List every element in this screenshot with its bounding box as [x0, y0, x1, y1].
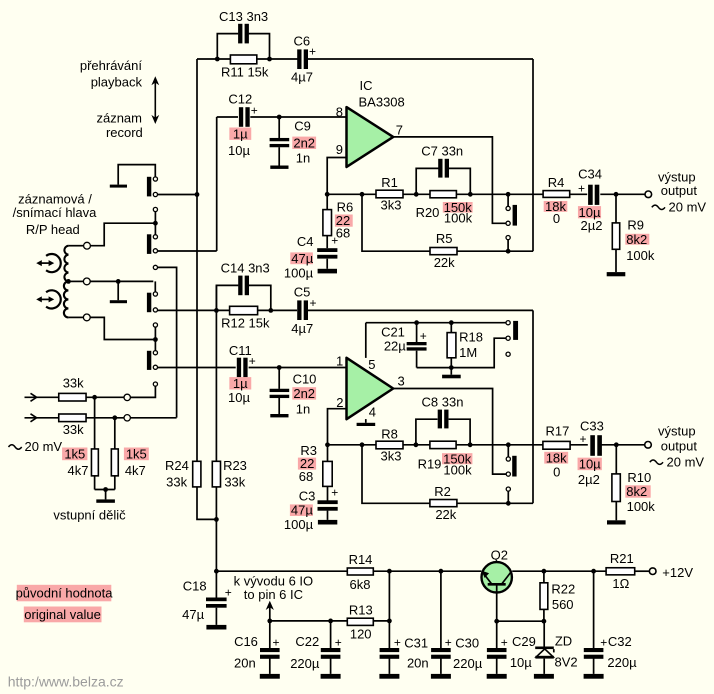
- svg-text:C11: C11: [229, 343, 252, 358]
- svg-text:2n2: 2n2: [293, 386, 315, 401]
- junction C22 top: [328, 619, 333, 624]
- svg-text:R18: R18: [459, 329, 483, 344]
- svg-text:+: +: [578, 181, 585, 195]
- svg-text:0: 0: [553, 465, 560, 480]
- junction C10 top: [277, 365, 282, 370]
- svg-text:Q2: Q2: [491, 548, 508, 563]
- svg-text:4k7: 4k7: [125, 463, 146, 478]
- svg-text:20 mV: 20 mV: [667, 455, 705, 470]
- svg-text:4µ7: 4µ7: [291, 321, 313, 336]
- svg-text:10µ: 10µ: [579, 457, 601, 472]
- switch E2 bar: [512, 456, 516, 477]
- pin 4 label: [369, 404, 376, 419]
- label C31 value: [404, 636, 428, 671]
- contact circle record position ch1: [506, 236, 510, 240]
- resistor R9 8k2/100k: [612, 223, 619, 249]
- pin 2 label: [336, 395, 343, 410]
- ground under C18: [206, 625, 226, 630]
- label C12 value: [228, 92, 252, 159]
- svg-text:C5: C5: [294, 284, 311, 299]
- wire main node line channel 2 (y=444.8): [328, 444, 645, 446]
- label R19 value: [418, 451, 473, 477]
- label IC type: [359, 78, 405, 109]
- svg-text:výstup: výstup: [658, 424, 696, 439]
- junction R18 top: [449, 320, 454, 325]
- op-amp U2 (IC BA3308 section 2): [347, 358, 394, 419]
- resistor 33k input row1: [59, 393, 86, 401]
- svg-text:47µ: 47µ: [182, 607, 204, 622]
- wire R12 line (y=310.4) switch C to EQ rail 2: [158, 309, 534, 311]
- svg-text:C9: C9: [294, 118, 311, 133]
- wire C31 stem lower: [388, 659, 390, 674]
- svg-text:+: +: [579, 432, 586, 446]
- svg-text:playback: playback: [91, 75, 143, 90]
- svg-text:původní hodnota: původní hodnota: [16, 585, 114, 600]
- svg-text:C22: C22: [295, 634, 319, 649]
- head terminal circle upper: [84, 242, 91, 249]
- svg-text:10µ: 10µ: [228, 390, 250, 405]
- label C18 value: [182, 579, 207, 622]
- svg-text:output: output: [661, 438, 698, 453]
- junction divider ground: [103, 487, 108, 492]
- svg-text:output: output: [661, 183, 698, 198]
- ground under C31: [379, 674, 399, 679]
- junction R2 right / record contact ch2: [506, 501, 511, 506]
- ground under R10: [607, 520, 626, 524]
- label R6 value: [335, 200, 353, 241]
- svg-text:8k2: 8k2: [626, 484, 647, 499]
- label R23 value: [223, 458, 247, 489]
- svg-text:R19: R19: [418, 457, 442, 472]
- svg-text:R20: R20: [416, 205, 440, 220]
- label ZD value: [555, 633, 578, 669]
- svg-text:C4: C4: [297, 234, 314, 249]
- junction C14 loop right: [268, 308, 273, 313]
- contact circle bias switch lower (open): [506, 352, 510, 356]
- wire ground stub above switch A: [118, 165, 155, 185]
- capacitor C14 3n3: [238, 276, 249, 296]
- wire R10 branch to ground: [615, 445, 617, 521]
- label playback/record selector: [80, 58, 143, 140]
- wire bias switch mid contact to C21/R18 bottom line: [417, 338, 506, 367]
- label divider 1k5/4k7 right: [124, 446, 149, 478]
- svg-text:1: 1: [336, 354, 343, 369]
- junction C7 loop right: [468, 192, 473, 197]
- junction Q2 base node: [494, 619, 499, 624]
- wire R2 feedback row: [362, 445, 533, 504]
- capacitor C33 10u/2u2: [579, 432, 601, 456]
- svg-text:68: 68: [299, 469, 313, 484]
- svg-text:0: 0: [553, 211, 560, 226]
- resistor R24 33k: [193, 461, 201, 487]
- svg-text:100k: 100k: [443, 463, 472, 478]
- svg-text:C7 33n: C7 33n: [421, 143, 463, 158]
- label R22 value: [551, 582, 575, 612]
- svg-text:C21: C21: [381, 324, 405, 339]
- ground under C9: [270, 166, 288, 169]
- label R20 value: [416, 200, 473, 226]
- resistor divider 1k5/4k7 right: [111, 449, 118, 476]
- label C6 value: [291, 34, 313, 85]
- capacitor C31 20n: [380, 636, 401, 659]
- svg-text:100µ: 100µ: [284, 265, 314, 280]
- resistor R2 22k: [430, 500, 457, 507]
- svg-text:8V2: 8V2: [555, 654, 578, 669]
- label R12 value: [221, 316, 270, 331]
- label original value note: [16, 585, 114, 623]
- svg-text:1k5: 1k5: [126, 446, 147, 461]
- junction C16 top: [267, 619, 272, 624]
- switch E1 contacts: [506, 206, 510, 225]
- capacitor C5 4u7: [297, 296, 316, 320]
- open circle input row2: [124, 415, 130, 421]
- resistor R13 120: [347, 618, 373, 625]
- svg-text:1M: 1M: [459, 345, 477, 360]
- capacitor C11 1u/10u: [237, 354, 256, 377]
- capacitor C18 47u electrolytic: [206, 586, 232, 608]
- svg-text:68: 68: [336, 226, 350, 241]
- svg-text:20 mV: 20 mV: [669, 200, 707, 215]
- svg-text:2n2: 2n2: [293, 135, 315, 150]
- open circle input row1: [124, 394, 130, 400]
- junction head centre tap at x=118: [116, 279, 121, 300]
- ground at switch A: [110, 185, 127, 188]
- wire stub to switch E1 upper contact: [507, 194, 509, 206]
- svg-text:47µ: 47µ: [291, 503, 313, 518]
- switch bar B (record): [147, 234, 151, 254]
- svg-text:100k: 100k: [444, 211, 473, 226]
- svg-text:C29: C29: [512, 634, 536, 649]
- svg-text:+: +: [420, 329, 427, 343]
- op-amp U1 (IC BA3308 section 1): [347, 107, 394, 167]
- wire R6-C4 branch: [326, 194, 328, 268]
- capacitor C6 4u7: [297, 44, 316, 69]
- svg-text:1µ: 1µ: [233, 126, 248, 141]
- output terminal circle ch1: [645, 191, 652, 198]
- svg-text:20 mV: 20 mV: [25, 439, 63, 454]
- svg-text:C13 3n3: C13 3n3: [219, 9, 268, 24]
- switch E2 contacts: [506, 457, 510, 476]
- label C11 value: [228, 343, 252, 405]
- junction C9 top: [277, 115, 282, 120]
- label C9 value: [292, 118, 316, 165]
- capacitor C29 10u: [487, 636, 508, 659]
- head coil lower winding: [64, 281, 84, 317]
- wire C30 stem: [440, 571, 442, 674]
- svg-text:560: 560: [552, 597, 574, 612]
- svg-text:120: 120: [350, 627, 372, 642]
- ground under C10: [270, 414, 288, 417]
- wire R13/C-row line y=620.9: [270, 620, 390, 622]
- ground at op-amp2 pin4: [357, 423, 376, 426]
- label input rows 33k: [63, 375, 84, 437]
- svg-text:to pin 6 IC: to pin 6 IC: [244, 587, 303, 602]
- wire op-amp1 output to playback switch: [393, 137, 506, 223]
- wire head centre tap to switch C and ground: [70, 281, 155, 292]
- capacitor C3 47u/100u electrolytic: [318, 485, 339, 510]
- wire C16 stem: [269, 621, 271, 674]
- switch contacts column x=155.4: [153, 177, 157, 386]
- svg-text:220µ: 220µ: [453, 656, 483, 671]
- wire switch pole stub (circle y=209.5 to circle y=236.8): [154, 212, 156, 235]
- label output ch2: [650, 424, 705, 470]
- junction R5 right / record contact: [506, 249, 511, 254]
- wire switch D lower contact to C11 (channel 2 input line): [158, 367, 236, 369]
- label R2 value: [434, 484, 457, 522]
- junction at switch pole y=223: [153, 221, 158, 226]
- svg-text:220µ: 220µ: [607, 655, 637, 670]
- label R9 value: [625, 218, 655, 263]
- wire input row 1 (33k upper): [25, 396, 125, 398]
- resistor R3 22/68: [323, 461, 332, 486]
- svg-text:C3: C3: [299, 488, 316, 503]
- svg-text:+: +: [394, 636, 401, 650]
- svg-text:C6: C6: [293, 34, 310, 49]
- junction main line at switch E2: [506, 442, 511, 447]
- head gap symbol upper (circle with arrow): [36, 254, 61, 272]
- label R/P head: [13, 192, 98, 237]
- ground at head centre tap: [110, 300, 127, 303]
- label C5 value: [291, 284, 313, 336]
- svg-text:1k5: 1k5: [64, 446, 85, 461]
- wire C21 branch: [416, 323, 418, 368]
- label C7 value: [421, 143, 463, 158]
- svg-text:20n: 20n: [407, 656, 429, 671]
- svg-text:6k8: 6k8: [350, 577, 371, 592]
- svg-text:3k3: 3k3: [381, 198, 402, 213]
- svg-text:C8 33n: C8 33n: [422, 395, 464, 410]
- junction C34 output node: [614, 192, 619, 197]
- transistor Q2: [482, 562, 512, 593]
- label R18 value: [459, 329, 483, 360]
- svg-text:5: 5: [368, 357, 375, 372]
- switch bar A (playback): [147, 177, 151, 197]
- resistor R1 3k3: [376, 190, 403, 198]
- svg-text:10µ: 10µ: [228, 143, 250, 158]
- resistor R5 22k: [430, 248, 457, 255]
- resistor R20 150k/100k: [430, 191, 456, 198]
- svg-text:R/P head: R/P head: [26, 222, 80, 237]
- pin 9 label: [336, 142, 343, 157]
- wire C7 loop channel 1: [416, 168, 470, 194]
- capacitor C12 1u/10u: [239, 103, 258, 126]
- ground under C30: [431, 674, 451, 679]
- svg-text:8k2: 8k2: [626, 232, 647, 247]
- wire C18 branch: [215, 571, 217, 625]
- contact circle record position ch2: [506, 487, 510, 491]
- capacitor C9 2n2/1n: [270, 138, 290, 147]
- svg-text:R22: R22: [551, 582, 575, 597]
- label R8 value: [381, 426, 402, 463]
- svg-text:original value: original value: [24, 607, 101, 622]
- svg-text:2µ2: 2µ2: [578, 472, 600, 487]
- wire op-amp2 output to switch E2: [393, 389, 506, 475]
- wire C9 branch: [278, 117, 280, 166]
- wire op-amp1 pin9 to inverting node: [327, 158, 346, 195]
- wire top EQ rail (top horizontal + right vertical to R5 line): [197, 59, 533, 251]
- wire zener stems: [543, 621, 545, 674]
- wire R24 bottom join: [197, 487, 216, 520]
- label C13 value: [219, 9, 268, 24]
- svg-text:220µ: 220µ: [290, 656, 320, 671]
- wire C11 output to op-amp pin 1: [249, 367, 347, 369]
- pin 7 label: [396, 123, 403, 138]
- svg-text:R17: R17: [545, 424, 569, 439]
- label R11 value: [221, 64, 269, 79]
- svg-text:4k7: 4k7: [68, 463, 89, 478]
- svg-text:http:/www.belza.cz: http:/www.belza.cz: [8, 673, 124, 689]
- switch bar C: [147, 293, 151, 313]
- selector double arrow: [151, 76, 159, 124]
- junction switch A to bus: [195, 192, 200, 197]
- svg-text:2: 2: [336, 395, 343, 410]
- wire R5 feedback row: [362, 194, 533, 251]
- resistor R8 3k3: [376, 441, 403, 449]
- svg-text:BA3308: BA3308: [359, 95, 405, 110]
- svg-text:20n: 20n: [234, 656, 256, 671]
- label C16 value: [234, 634, 258, 671]
- ground under C3: [318, 520, 337, 525]
- svg-text:22k: 22k: [434, 255, 455, 270]
- resistor R4 18k/0: [543, 191, 570, 198]
- ground under C22: [321, 674, 341, 679]
- wire C10 branch: [278, 368, 280, 415]
- input arrow 2: [31, 414, 37, 422]
- wire switch row3 contact to x=177 bus: [158, 267, 177, 417]
- svg-text:C14 3n3: C14 3n3: [221, 261, 270, 276]
- zener diode ZD 8V2: [535, 647, 554, 659]
- svg-text:1n: 1n: [296, 402, 310, 417]
- svg-text:4µ7: 4µ7: [291, 70, 313, 85]
- svg-text:C16: C16: [234, 634, 258, 649]
- svg-text:C31: C31: [404, 636, 428, 651]
- svg-text:+12V: +12V: [662, 565, 693, 580]
- svg-text:1n: 1n: [296, 150, 310, 165]
- wire C14 loop: [216, 285, 270, 310]
- svg-text:+: +: [309, 296, 316, 310]
- wire C12 output to op-amp pin 8: [250, 116, 346, 118]
- label R5 value: [434, 231, 455, 270]
- label C3 value: [284, 488, 316, 532]
- label R1 value: [381, 175, 402, 213]
- ground under ZD: [534, 674, 554, 679]
- resistor R19 150k/100k: [430, 441, 456, 448]
- ground under R9: [607, 272, 626, 276]
- label C32 value: [607, 634, 637, 670]
- capacitor C30 220u: [431, 636, 452, 659]
- head terminal circle lower: [83, 314, 90, 321]
- junction R6 node: [325, 192, 330, 197]
- wire record contact stub ch2: [507, 491, 509, 503]
- label R17 value: [544, 424, 569, 480]
- wire head lower terminal to switch pole 2 (x=104 down to y=339.5): [90, 317, 153, 339]
- label vstupni delic: [53, 507, 126, 522]
- wire R22 stems: [543, 571, 545, 621]
- junction C13 right: [267, 57, 272, 62]
- svg-text:ZD: ZD: [555, 633, 572, 648]
- capacitor C34 10u/2u2: [578, 181, 599, 205]
- label C21 value: [381, 324, 406, 353]
- label divider 1k5/4k7 left: [62, 446, 88, 478]
- capacitor C7 33n: [438, 159, 449, 178]
- junction C32 top: [591, 569, 596, 574]
- wire R14-R13 vertical + C31 stem: [388, 571, 390, 648]
- svg-text:R14: R14: [349, 552, 373, 567]
- junction R23/R24 join: [214, 517, 219, 522]
- wire C22 stem: [330, 621, 332, 674]
- svg-text:R10: R10: [627, 470, 651, 485]
- ground under R18: [442, 375, 461, 379]
- switch F bar: [513, 321, 518, 340]
- junction C7 loop left: [414, 192, 419, 197]
- capacitor C4 47u/100u electrolytic: [317, 233, 338, 258]
- junction C13 left: [215, 57, 220, 62]
- label C8 value: [422, 395, 464, 410]
- svg-text:4: 4: [369, 404, 376, 419]
- svg-text:C33: C33: [580, 418, 604, 433]
- ground of input divider: [96, 499, 115, 502]
- resistor R11 15k: [230, 55, 256, 64]
- svg-text:C34: C34: [578, 166, 602, 181]
- switch E1 bar: [513, 205, 517, 226]
- wire R18 branch: [450, 323, 452, 375]
- label R14 value: [349, 552, 373, 592]
- wire Q2 emitter node line: [497, 593, 544, 674]
- svg-text:+: +: [600, 636, 607, 650]
- resistor R10 8k2/100k: [612, 474, 620, 502]
- junction C8 loop right: [468, 442, 473, 447]
- svg-text:C12: C12: [228, 92, 252, 107]
- svg-text:3k3: 3k3: [381, 449, 402, 464]
- label C30 value: [453, 636, 483, 672]
- svg-text:R21: R21: [610, 551, 634, 566]
- junction R14 right: [387, 569, 392, 574]
- junction R5 tap: [360, 192, 365, 197]
- capacitor C10 2n2/1n: [270, 389, 290, 398]
- svg-text:100µ: 100µ: [284, 517, 314, 532]
- svg-text:+: +: [273, 636, 280, 650]
- wire C21/R18 top line (y=322.7) from pin5 riser: [366, 322, 506, 324]
- junction R18 bottom: [449, 365, 454, 370]
- junction C18 node: [214, 569, 219, 574]
- label C34 value: [578, 166, 603, 233]
- contact circle bias switch upper: [506, 321, 510, 325]
- junction R22 top: [542, 569, 547, 574]
- capacitor C21 22u electrolytic: [407, 329, 427, 351]
- pin 5 label: [368, 357, 375, 372]
- junction C8 loop left: [414, 442, 419, 447]
- svg-text:R12 15k: R12 15k: [221, 316, 270, 331]
- +12V terminal circle: [649, 568, 656, 575]
- input arrow 1: [31, 393, 37, 401]
- wire divider resistors to ground: [95, 397, 115, 499]
- label R13 value: [349, 603, 373, 642]
- svg-text:record: record: [106, 125, 143, 140]
- junction at switch pole y=339.5: [153, 337, 158, 342]
- ground under C32: [584, 674, 604, 679]
- svg-text:33k: 33k: [63, 375, 84, 390]
- wire switch pole stub 2 (circle y=325 to circle y=352.7): [154, 327, 156, 351]
- wire main supply line y=571.2: [216, 570, 649, 572]
- wire record contact stub ch1: [507, 240, 509, 251]
- wire pin5 riser: [365, 323, 367, 358]
- svg-text:+: +: [331, 485, 338, 499]
- svg-text:R9: R9: [627, 218, 644, 233]
- junction R13 right / C31 node: [387, 619, 392, 624]
- label ~20 mV input level: [9, 439, 63, 454]
- resistor divider 1k5/4k7 left: [91, 449, 98, 476]
- label R10 value: [625, 470, 655, 514]
